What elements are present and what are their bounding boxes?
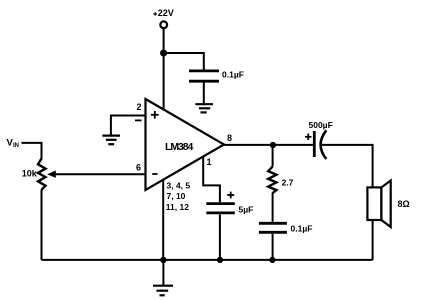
svg-text:7, 10: 7, 10 bbox=[167, 191, 186, 201]
svg-text:6: 6 bbox=[136, 162, 141, 172]
svg-text:500µF: 500µF bbox=[309, 120, 333, 130]
svg-text:LM384: LM384 bbox=[165, 141, 193, 153]
svg-text:0.1µF: 0.1µF bbox=[222, 69, 244, 79]
svg-text:IN: IN bbox=[13, 143, 19, 149]
svg-text:1: 1 bbox=[207, 157, 212, 167]
svg-text:8: 8 bbox=[227, 133, 232, 143]
svg-text:5µF: 5µF bbox=[239, 204, 254, 214]
svg-text:2: 2 bbox=[137, 102, 142, 112]
svg-text:22V: 22V bbox=[158, 8, 174, 18]
svg-text:2.7: 2.7 bbox=[282, 177, 294, 187]
svg-text:3, 4, 5: 3, 4, 5 bbox=[167, 180, 191, 190]
svg-text:11, 12: 11, 12 bbox=[166, 202, 189, 212]
svg-text:10k: 10k bbox=[22, 169, 38, 179]
svg-text:8Ω: 8Ω bbox=[398, 199, 410, 209]
svg-text:0.1µF: 0.1µF bbox=[291, 223, 313, 233]
